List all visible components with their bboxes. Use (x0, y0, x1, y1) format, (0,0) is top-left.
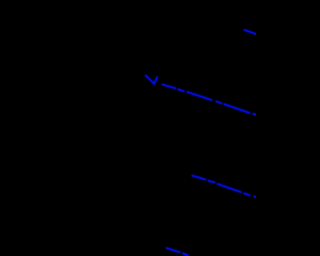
wire: line D dash 1 (167, 248, 180, 252)
node A: V-shaped vertex of line B (146, 76, 158, 84)
wire: line C dash 4 (short) (244, 193, 249, 195)
wire: line B dash 6 (253, 114, 257, 116)
wire: line B dash 4 (short) (216, 101, 221, 103)
wire: line C dash 5 (254, 197, 257, 198)
wire: line B dash 3 (long) (187, 92, 211, 100)
wire: line B dash 1 (162, 85, 175, 89)
wire: line B dash 5 (long) (225, 104, 250, 113)
wire: line C dash 3 (long) (218, 184, 241, 192)
wire: line B dash 2 (short) (178, 89, 184, 91)
wire: line C dash 1 (192, 176, 205, 180)
wire: line C dash 2 (short) (209, 181, 215, 183)
wire: top-right dash of line A (245, 30, 257, 34)
wire: line D dash 2 (short) (183, 253, 188, 255)
